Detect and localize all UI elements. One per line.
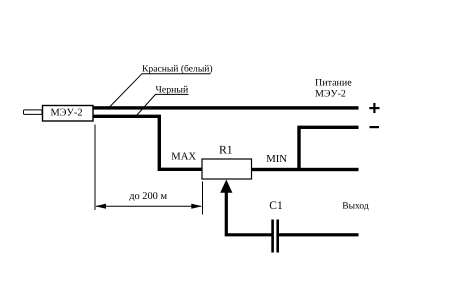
svg-text:до 200 м: до 200 м [129, 191, 167, 202]
svg-text:MAX: MAX [171, 152, 196, 163]
svg-text:МЭУ-2: МЭУ-2 [315, 89, 346, 100]
svg-text:Питание: Питание [315, 78, 352, 89]
svg-text:Черный: Черный [156, 84, 189, 95]
svg-text:МЭУ-2: МЭУ-2 [50, 108, 82, 119]
svg-text:MIN: MIN [266, 153, 287, 165]
svg-text:Выход: Выход [342, 202, 369, 212]
svg-text:C1: C1 [269, 200, 283, 212]
svg-text:R1: R1 [219, 143, 233, 156]
svg-text:Красный (белый): Красный (белый) [142, 63, 213, 74]
